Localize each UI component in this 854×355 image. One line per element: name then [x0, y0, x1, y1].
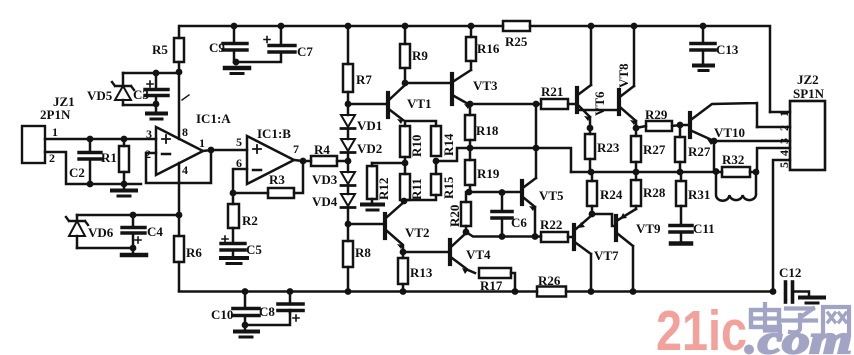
wire: bottom rail [179, 290, 773, 293]
wire: R32 right node up to JZ2 pin4 [757, 148, 790, 172]
svg-text:R18: R18 [476, 123, 499, 138]
watermark 21ic [656, 299, 747, 355]
ground (under C11) [671, 241, 691, 246]
node: VT1 collector node [402, 80, 409, 87]
svg-text:VT8: VT8 [616, 63, 631, 88]
svg-text:C9: C9 [209, 40, 225, 55]
svg-text:1: 1 [52, 125, 58, 139]
resistor R10 [400, 126, 410, 157]
svg-text:C8: C8 [259, 304, 275, 319]
wire: C10 to C8 bottom link [245, 313, 290, 325]
node: VT5 collector taps [533, 101, 540, 152]
svg-text:1: 1 [777, 111, 791, 117]
node: junctions on top rail [231, 23, 707, 30]
wire: VD6/C4 top and bottom links [77, 215, 179, 248]
capacitor C8 (electrolytic) [278, 292, 303, 322]
wire: VT2 emitter to VT4 base [403, 251, 448, 254]
svg-text:VD3: VD3 [312, 172, 338, 187]
resistor R19 [465, 160, 475, 192]
svg-text:R14: R14 [441, 133, 456, 156]
transistor Q VT5 [522, 104, 536, 237]
capacitor C12 (output) [786, 282, 810, 302]
svg-text:R8: R8 [355, 245, 371, 260]
svg-text:7: 7 [293, 142, 299, 156]
wire: R24 node to VT9 base [592, 214, 616, 226]
svg-text:VT10: VT10 [714, 125, 745, 140]
wire: IC1A feedback loop [146, 150, 211, 183]
wire: R18/R19 node across to mid rail [436, 148, 571, 172]
node: VT2 emitter node [400, 249, 407, 256]
wire: IC1A pin4 line down [178, 163, 181, 215]
svg-text:8: 8 [182, 125, 188, 139]
diode VD2 [341, 139, 355, 161]
label JZ2 pin numbers (rotated) [777, 111, 791, 168]
wire: top rail into JZ2 pin1 [770, 111, 790, 114]
node: R29/VT10 base node [677, 122, 684, 129]
zener diode VD5 [112, 73, 134, 105]
transistor Q VT2 [385, 202, 404, 252]
svg-text:VT7: VT7 [594, 248, 619, 263]
wire: VT5 base line [469, 191, 522, 194]
svg-text:C11: C11 [693, 221, 715, 236]
svg-text:R23: R23 [597, 140, 620, 155]
node A (R5 bottom / zener-cap node) [153, 69, 183, 108]
svg-text:VT5: VT5 [539, 188, 564, 203]
svg-text:R27: R27 [688, 144, 711, 159]
svg-text:R3: R3 [269, 172, 285, 187]
svg-text:2: 2 [777, 125, 791, 131]
resistor R7 [343, 26, 353, 104]
resistor R31 [676, 172, 686, 224]
node: C6 bottom / VT5 emitter junctions [499, 233, 539, 240]
capacitor C2 [79, 139, 101, 184]
node: C10/C8 bottom junction [242, 322, 249, 329]
capacitor C13 [691, 26, 715, 63]
resistor R15 [404, 161, 441, 200]
resistor R28 [631, 172, 641, 209]
svg-text:R5: R5 [152, 42, 168, 57]
svg-text:C10: C10 [211, 307, 233, 322]
transistor Q VT6 [577, 26, 591, 128]
svg-text:R20: R20 [447, 205, 462, 227]
node: VT8 emitter node [633, 125, 640, 132]
wire: JZ2 pin5 down to output cap node [773, 160, 790, 292]
wire: VT10 base [680, 124, 690, 127]
svg-text:5: 5 [236, 135, 242, 149]
resistor R17 [479, 268, 515, 292]
watermark chinese char wang [823, 307, 849, 335]
node: R11/R15/VT2 collector node [401, 198, 408, 205]
svg-text:R32: R32 [722, 152, 744, 167]
wire: IC1B pin6 to feedback node [233, 169, 247, 193]
svg-text:R17: R17 [480, 278, 503, 293]
svg-text:C6: C6 [511, 215, 527, 230]
wire: input signal (JZ1 pin1 to IC1A pin3) [45, 138, 156, 141]
svg-text:VT3: VT3 [473, 78, 498, 93]
svg-text:R29: R29 [645, 107, 668, 122]
svg-text:R7: R7 [356, 72, 372, 87]
resistor R14 [431, 126, 441, 156]
node: R24/VT7 collector node [589, 211, 596, 218]
resistor R23 [585, 128, 595, 172]
svg-text:R27: R27 [643, 142, 666, 157]
connector JZ2 [790, 101, 825, 170]
svg-text:2P1N: 2P1N [40, 107, 71, 122]
svg-text:C3: C3 [133, 87, 149, 102]
node: VT6 emitter node [587, 125, 594, 132]
node: R10/R11 and R14/R15 junctions [402, 158, 440, 167]
wire: VT1 collector to VT3 base [405, 82, 452, 85]
svg-text:R11: R11 [409, 178, 424, 200]
zener diode VD6 [66, 215, 88, 248]
svg-text:1: 1 [199, 136, 205, 150]
transistor Q VT1 [388, 85, 405, 124]
svg-text:JZ2: JZ2 [797, 72, 819, 87]
node: R20 bottom / VT4 collector node [463, 229, 470, 236]
transistor Q VT9 (PNP) [616, 209, 636, 292]
resistor R27 (second) [675, 125, 685, 172]
resistor R29 [636, 121, 680, 131]
wire: R21 to VT6 base [568, 103, 577, 106]
svg-text:IC1:A: IC1:A [196, 111, 231, 126]
node: IC1B feedback node [230, 158, 307, 197]
svg-text:R21: R21 [541, 84, 563, 99]
svg-text:C2: C2 [69, 165, 85, 180]
resistor R13 [398, 252, 408, 292]
svg-text:VT2: VT2 [405, 225, 430, 240]
wire: IC1A output to IC1B pin5 [203, 150, 247, 151]
svg-text:C13: C13 [716, 42, 739, 57]
svg-text:VD5: VD5 [87, 88, 113, 103]
watermark chinese char zi [783, 309, 816, 333]
ground (input) [112, 184, 136, 196]
transistor Q VT3 [452, 61, 471, 109]
ground (right of C12) [800, 298, 824, 304]
wire: R10/R11 node to R12 [372, 157, 405, 174]
watermark chinese char dian [751, 304, 780, 332]
svg-text:IC1:B: IC1:B [257, 126, 291, 141]
svg-text:R1: R1 [101, 150, 117, 165]
svg-text:C7: C7 [297, 44, 313, 59]
node: C9/C7 ground junction [233, 59, 240, 66]
node: VT10 emitter node [711, 138, 718, 145]
resistor R16 [466, 26, 476, 61]
op-amp U1 IC1:B [247, 136, 294, 184]
wire: small tick near pin8 [182, 95, 189, 100]
wire: VT1 emitter to R10/R14 [405, 121, 436, 126]
resistor R27 (first) [631, 128, 641, 172]
diode VD3 [341, 161, 355, 194]
svg-text:4: 4 [182, 163, 188, 177]
ground (under C4) [122, 248, 146, 255]
resistor R32 [722, 167, 750, 177]
watermark .com [744, 317, 852, 355]
capacitor C6 [492, 193, 512, 237]
transistor Q VT10 [690, 103, 757, 145]
node: junctions on bottom rail [242, 288, 777, 295]
wire: VT2 base [348, 223, 383, 226]
resistor R5 [174, 26, 184, 72]
wire: VT3 emitter to R21 [470, 103, 541, 106]
connector JZ1 [22, 126, 45, 163]
svg-text:R15: R15 [441, 176, 456, 199]
resistor R6 [174, 215, 184, 291]
op-amp U1 IC1:A [156, 127, 203, 175]
capacitor C7 (electrolytic) [236, 26, 295, 64]
svg-text:R12: R12 [376, 178, 391, 200]
resistor R3 (feedback) [233, 161, 303, 198]
resistor R25 (in top rail) [503, 21, 530, 31]
node: diode chain junctions [345, 101, 352, 228]
transistor Q VT8 [619, 26, 636, 128]
svg-text:VT1: VT1 [407, 96, 432, 111]
svg-text:R2: R2 [242, 213, 258, 228]
ground (under C10) [235, 325, 258, 337]
wire: VD5/C3 top link [123, 72, 179, 75]
ground (under R12) [362, 205, 383, 211]
svg-text:VD1: VD1 [357, 118, 382, 133]
resistor R4 [311, 156, 348, 166]
wire: VT1 base [348, 103, 386, 106]
resistor R22 [541, 232, 568, 242]
wire: IC1B output [294, 160, 311, 161]
svg-text:5: 5 [777, 162, 791, 168]
svg-text:VD6: VD6 [88, 225, 114, 240]
node: junctions on mid rail [588, 168, 760, 175]
svg-text:C12: C12 [779, 265, 801, 280]
capacitor C3 (electrolytic) [123, 73, 168, 105]
svg-text:R19: R19 [477, 166, 500, 181]
ground (under C9/C7) [225, 68, 249, 74]
diode VD4 [341, 194, 355, 224]
capacitor C5 (electrolytic to ground) [221, 236, 247, 264]
wire: VT4 collector net to C6/R22 line [466, 232, 541, 237]
svg-text:R10: R10 [409, 135, 424, 157]
node: input junctions [87, 136, 128, 188]
svg-text:R4: R4 [314, 142, 330, 157]
resistor R26 (in bottom rail) [537, 287, 566, 297]
svg-text:R28: R28 [643, 185, 666, 200]
inductor L (parallel with R32) [716, 172, 756, 201]
resistor R11 [400, 174, 410, 200]
svg-text:VT6: VT6 [592, 91, 607, 116]
svg-text:R31: R31 [688, 187, 710, 202]
svg-text:21ic: 21ic [656, 299, 747, 355]
resistor R21 [541, 99, 568, 109]
svg-text:VD4: VD4 [312, 194, 338, 209]
svg-text:VT4: VT4 [466, 247, 491, 262]
svg-text:4: 4 [777, 150, 791, 156]
node: VD6/C4 junctions [130, 212, 183, 252]
svg-text:R22: R22 [540, 217, 562, 232]
diode VD1 [341, 104, 355, 139]
wire: IC1A pin8 supply line [178, 72, 181, 139]
resistor R9 [400, 26, 410, 83]
resistor R12 [367, 163, 377, 203]
svg-text:R13: R13 [410, 265, 433, 280]
resistor R24 [587, 172, 597, 214]
node: IC1A output [208, 147, 215, 154]
svg-text:SP1N: SP1N [793, 86, 825, 101]
svg-text:VD2: VD2 [357, 141, 382, 156]
node: VT3 emitter node [467, 101, 474, 108]
capacitor C10 [233, 292, 259, 326]
svg-text:R26: R26 [538, 273, 561, 288]
node: R18/R19 junction [467, 145, 474, 152]
svg-text:3: 3 [777, 138, 791, 144]
ground (under C3) [147, 105, 166, 119]
ground (under C13) [694, 66, 713, 71]
wire: top supply rail [180, 26, 770, 112]
wire: VT10 emitter to JZ2 pin3 [714, 140, 790, 143]
wire: mid output rail [571, 171, 757, 174]
svg-text:R25: R25 [505, 34, 528, 49]
wire: R22 to VT7 base [568, 236, 574, 239]
resistor R18 [465, 104, 475, 160]
capacitor C9 [223, 26, 247, 62]
resistor R8 [343, 224, 353, 292]
transistor Q VT7 (PNP) [574, 215, 592, 292]
svg-text:R24: R24 [600, 187, 623, 202]
capacitor C11 [670, 226, 692, 242]
resistor R20 [461, 192, 471, 232]
svg-text:R6: R6 [186, 245, 202, 260]
svg-text:C5: C5 [246, 242, 262, 257]
node: R19/R20/VT5-base junction [466, 189, 506, 196]
svg-text:R16: R16 [477, 41, 500, 56]
wire: input return (JZ1 pin2 to ground rail) [45, 152, 141, 184]
resistor R2 [228, 193, 239, 242]
svg-text:C4: C4 [147, 224, 163, 239]
resistor R1 [119, 139, 129, 184]
capacitor C4 (electrolytic) [122, 215, 145, 248]
svg-text:R9: R9 [412, 48, 428, 63]
svg-text:com: com [758, 317, 852, 355]
transistor Q VT4 [450, 233, 475, 274]
wire: VT10 emitter down to R32 node [714, 141, 716, 172]
wire: VT6/VT8 base link [579, 109, 619, 112]
svg-text:VT9: VT9 [636, 221, 661, 236]
wire: JZ2 pin2 stub [757, 126, 790, 129]
